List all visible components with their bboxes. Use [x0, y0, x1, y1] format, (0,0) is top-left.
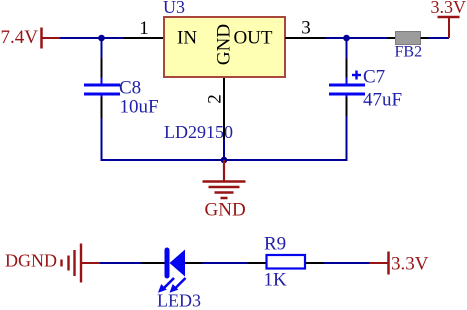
junction node input — [98, 35, 105, 42]
power port 3.3V top — [431, 0, 467, 38]
svg-text:10uF: 10uF — [120, 97, 159, 118]
wire — [429, 37, 450, 39]
wire ground bus — [101, 159, 347, 161]
svg-text:3: 3 — [301, 18, 311, 39]
svg-text:C7: C7 — [363, 67, 385, 88]
pin 1 — [124, 18, 164, 39]
svg-text:2: 2 — [205, 94, 226, 104]
svg-text:47uF: 47uF — [363, 90, 402, 111]
svg-text:IN: IN — [177, 28, 197, 49]
junction node ground bus — [221, 157, 228, 164]
LED3 designator — [157, 291, 201, 310]
svg-text:3.3V: 3.3V — [431, 0, 467, 17]
wire — [100, 262, 142, 264]
ground GND — [203, 160, 246, 198]
power port 3.3V right — [370, 252, 429, 275]
power port 7.4V — [1, 27, 61, 49]
GND label — [205, 200, 246, 221]
pin 3 — [285, 18, 326, 39]
capacitor C7 — [329, 59, 365, 117]
svg-text:OUT: OUT — [233, 28, 272, 49]
wire — [101, 118, 103, 161]
svg-text:DGND: DGND — [5, 251, 57, 271]
svg-text:7.4V: 7.4V — [1, 27, 39, 48]
C8 value 10uF — [120, 97, 159, 118]
resistor R9 — [248, 255, 324, 269]
junction node output — [343, 35, 350, 42]
capacitor C8 — [84, 59, 120, 119]
wire — [326, 37, 388, 39]
wire — [202, 262, 248, 264]
wire — [324, 262, 370, 264]
svg-text:U3: U3 — [163, 0, 185, 17]
LED LED3 — [142, 250, 202, 293]
R9 value 1K — [264, 270, 288, 291]
wire — [60, 37, 124, 39]
wire — [223, 140, 225, 161]
svg-text:1: 1 — [139, 18, 149, 39]
U3 pin name IN — [177, 28, 197, 49]
wire — [101, 38, 103, 59]
svg-text:GND: GND — [205, 200, 246, 221]
pin 2 — [205, 78, 226, 140]
C8 designator — [119, 78, 141, 99]
ferrite bead FB2 — [387, 32, 429, 45]
U3 part number LD29150 — [164, 122, 233, 142]
wire — [346, 116, 348, 161]
svg-text:FB2: FB2 — [395, 44, 423, 61]
C7 designator — [363, 67, 385, 88]
C7 value 47uF — [363, 90, 402, 111]
svg-text:LED3: LED3 — [157, 291, 201, 310]
svg-text:1K: 1K — [264, 270, 288, 291]
FB2 designator — [395, 44, 423, 61]
U3 pin name GND — [214, 24, 235, 65]
svg-text:GND: GND — [214, 24, 235, 65]
regulator U3 — [164, 17, 285, 77]
svg-text:C8: C8 — [119, 78, 141, 99]
R9 designator — [264, 234, 286, 255]
power port DGND — [5, 244, 100, 283]
U3 pin name OUT — [233, 28, 272, 49]
U3 designator — [163, 0, 185, 17]
svg-text:R9: R9 — [264, 234, 286, 255]
wire — [346, 38, 348, 59]
svg-text:LD29150: LD29150 — [164, 122, 233, 142]
svg-text:3.3V: 3.3V — [391, 254, 429, 275]
